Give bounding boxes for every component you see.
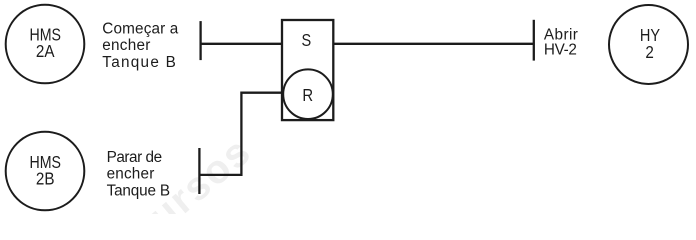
node label: Parar de encher Tanque B bbox=[107, 149, 171, 200]
svg-text:Tanque B: Tanque B bbox=[102, 54, 176, 71]
instrument bubble HY 2 bbox=[609, 5, 688, 84]
memory block S/R bbox=[282, 20, 333, 120]
instrument bubble HMS 2A bbox=[6, 5, 85, 84]
wire: S output to HV-2 terminal bbox=[333, 43, 534, 45]
instrument bubble HMS 2B bbox=[6, 132, 85, 211]
input terminal tick (set input) bbox=[199, 21, 201, 60]
svg-text:encher: encher bbox=[102, 37, 150, 54]
svg-text:2A: 2A bbox=[36, 42, 55, 61]
svg-text:Começar a: Começar a bbox=[102, 20, 178, 37]
output terminal tick (Abrir HV-2) bbox=[533, 20, 535, 61]
svg-text:Tanque B: Tanque B bbox=[107, 183, 171, 200]
reset circle bbox=[283, 69, 333, 119]
svg-text:HV-2: HV-2 bbox=[544, 42, 577, 59]
node label: Abrir HV-2 bbox=[544, 26, 578, 58]
svg-text:S: S bbox=[302, 32, 312, 50]
input terminal tick (reset input) bbox=[198, 148, 200, 194]
svg-text:R: R bbox=[302, 86, 313, 105]
node label: Começar a encher Tanque B bbox=[102, 20, 178, 71]
wire: reset input to R circle (elbow) bbox=[199, 93, 283, 175]
svg-text:Parar de: Parar de bbox=[107, 149, 163, 166]
svg-text:2B: 2B bbox=[36, 170, 55, 189]
wire: set input to S block bbox=[201, 43, 282, 45]
svg-text:2: 2 bbox=[645, 43, 653, 62]
watermark "ursos" bbox=[141, 129, 260, 239]
svg-text:encher: encher bbox=[107, 166, 155, 183]
